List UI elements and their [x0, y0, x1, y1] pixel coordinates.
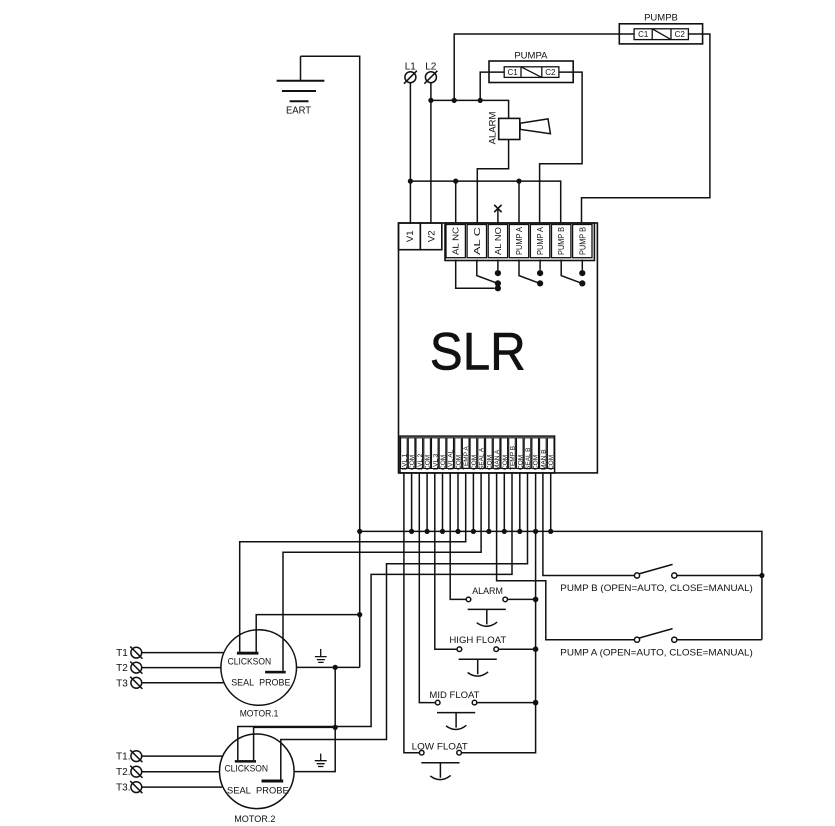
terminal COM 2 — [408, 438, 416, 470]
float switch LOW FLOAT — [412, 742, 468, 780]
svg-text:V2: V2 — [426, 230, 437, 242]
wire LVL 2 to mid float — [419, 473, 435, 703]
svg-text:MOTOR.2: MOTOR.2 — [234, 814, 275, 825]
terminal L2 — [424, 61, 437, 83]
svg-text:COM: COM — [440, 455, 447, 470]
terminal PUMP A 2 — [530, 225, 549, 258]
unused AL NO stub with X — [494, 205, 501, 223]
svg-text:MOTOR.1: MOTOR.1 — [240, 708, 279, 719]
terminal COM 16 — [517, 438, 525, 470]
svg-text:PUMP B: PUMP B — [556, 227, 566, 255]
terminal COM 6 — [439, 438, 447, 470]
ground symbol motor2 — [315, 754, 327, 767]
wire SEAL A to motor1 seal probe — [283, 473, 481, 671]
terminal PUMP A 1 — [509, 225, 528, 258]
terminal MAN A — [493, 438, 501, 470]
svg-text:CLICKSON: CLICKSON — [225, 764, 269, 774]
wire to PUMPB coil C1 — [454, 34, 634, 100]
svg-text:HIGH FLOAT: HIGH FLOAT — [449, 635, 506, 646]
terminal LVL 2 — [416, 438, 424, 470]
terminal COM 12 — [486, 438, 494, 470]
svg-text:AL NC: AL NC — [451, 227, 461, 255]
terminal T3 — [116, 677, 223, 690]
COM stub wires — [412, 473, 551, 531]
wire L1 to V1 — [409, 83, 411, 223]
wire L2 feed to alarm — [431, 100, 509, 118]
float switch MID FLOAT — [429, 690, 535, 730]
wire L2 to V2 — [430, 83, 432, 223]
motor M2 — [219, 734, 294, 825]
earth electrode EART — [277, 56, 325, 116]
terminal SEAL B — [524, 438, 532, 470]
terminal LVL AL — [447, 438, 455, 470]
junction ground chain dots — [333, 665, 338, 670]
terminal COM 20 — [547, 438, 555, 470]
svg-text:COM: COM — [409, 455, 416, 470]
svg-text:MAN B: MAN B — [540, 449, 547, 470]
ground symbol motor1 — [315, 649, 327, 663]
terminal SEAL A — [478, 438, 486, 470]
terminal COM 14 — [501, 438, 509, 470]
svg-text:LVL 2: LVL 2 — [417, 453, 424, 470]
svg-text:C1: C1 — [507, 68, 518, 77]
svg-text:AL C: AL C — [472, 227, 482, 255]
terminal AL NC — [446, 225, 465, 258]
wire SEAL B to motor2 seal probe — [281, 473, 528, 780]
terminal T3. — [116, 781, 222, 794]
terminal TEMP A — [462, 438, 470, 470]
float switch ALARM — [466, 586, 535, 626]
manual switch PUMP B — [560, 564, 762, 594]
relay terminal block outer — [445, 223, 594, 261]
svg-text:T3: T3 — [116, 678, 128, 689]
svg-text:COM: COM — [425, 455, 432, 470]
svg-text:PUMP B (OPEN=AUTO, CLOSE=MANUA: PUMP B (OPEN=AUTO, CLOSE=MANUAL) — [560, 583, 753, 594]
terminal COM 8 — [455, 438, 463, 470]
rail junction dots — [533, 597, 539, 706]
svg-text:T3.: T3. — [116, 783, 130, 794]
ground chain wire to motor2 — [294, 667, 335, 771]
wire PUMPA C2 to PUMP A 2 — [540, 72, 583, 223]
svg-text:L1: L1 — [405, 61, 417, 72]
wire alarm to AL C — [477, 140, 508, 224]
terminal PUMP B 2 — [573, 225, 592, 258]
wire EART to ground rail — [301, 56, 360, 667]
junction clickson to earth rail — [357, 612, 362, 617]
svg-text:PUMPA: PUMPA — [514, 51, 548, 62]
svg-text:ALARM: ALARM — [472, 586, 503, 597]
svg-text:PUMP B: PUMP B — [577, 227, 587, 255]
wire to PUMPA coil C1 — [480, 72, 504, 100]
svg-text:SEAL PROBE: SEAL PROBE — [231, 678, 290, 688]
terminal T2. — [116, 766, 219, 779]
svg-text:SEAL B: SEAL B — [525, 447, 532, 470]
svg-text:LVL AL: LVL AL — [448, 449, 455, 470]
svg-text:TEMP A: TEMP A — [463, 446, 470, 470]
svg-text:COM: COM — [471, 455, 478, 470]
terminal TEMP B — [509, 438, 517, 470]
terminal AL C — [467, 225, 486, 258]
svg-text:COM: COM — [486, 455, 493, 470]
wire LVL 1 to low float — [404, 473, 420, 753]
contactor coil PUMPA — [489, 51, 573, 83]
svg-text:C2: C2 — [545, 68, 556, 77]
svg-text:T1: T1 — [116, 648, 128, 659]
wire motor1 clickson to earth rail — [256, 615, 360, 652]
terminal L1 — [404, 61, 417, 83]
COM bus wire — [360, 531, 762, 639]
svg-text:PUMPB: PUMPB — [644, 13, 678, 24]
float switch HIGH FLOAT — [449, 635, 535, 676]
svg-text:LVL 3: LVL 3 — [432, 453, 439, 470]
alarm horn — [488, 112, 551, 145]
float common rail — [461, 473, 535, 753]
manual switch PUMP A — [560, 629, 762, 659]
terminal T2 — [116, 662, 221, 675]
svg-text:CLICKSON: CLICKSON — [228, 656, 272, 666]
svg-text:SEAL A: SEAL A — [479, 447, 486, 470]
terminal LVL 3 — [432, 438, 440, 470]
terminal PUMP B 1 — [552, 225, 571, 258]
svg-text:COM: COM — [502, 455, 509, 470]
svg-text:T2: T2 — [116, 663, 128, 674]
wire TEMP B to motor2 clickson — [238, 473, 512, 760]
svg-text:TEMP B: TEMP B — [510, 446, 517, 470]
terminal T1 — [116, 647, 223, 660]
svg-text:L2: L2 — [425, 61, 437, 72]
wire LVL 3 to high float — [435, 473, 457, 649]
svg-text:SLR: SLR — [430, 322, 526, 381]
terminal T1. — [116, 750, 222, 763]
COM bus junction dots — [357, 529, 553, 534]
svg-text:MAN A: MAN A — [494, 449, 501, 470]
svg-text:COM: COM — [456, 455, 463, 470]
wire motor1 body to earth rail — [296, 666, 359, 668]
wire AL NC stub — [455, 181, 457, 223]
svg-text:LVL 1: LVL 1 — [401, 453, 408, 470]
terminal COM 18 — [532, 438, 540, 470]
svg-text:AL NO: AL NO — [493, 227, 503, 255]
svg-text:T1.: T1. — [116, 752, 130, 763]
svg-text:PUMP A: PUMP A — [514, 227, 524, 255]
svg-text:MID FLOAT: MID FLOAT — [429, 690, 479, 701]
svg-text:V1: V1 — [405, 230, 416, 242]
wire PUMPB C2 to PUMP B 2 — [582, 34, 710, 223]
svg-text:COM: COM — [533, 455, 540, 470]
svg-text:T2.: T2. — [116, 767, 130, 778]
svg-text:COM: COM — [548, 455, 555, 470]
terminal MAN B — [540, 438, 548, 470]
svg-text:PUMP A: PUMP A — [535, 227, 545, 255]
junction bus rail to pump B switch — [759, 573, 764, 578]
wire L1 feed to PUMP B 1 — [410, 181, 560, 223]
SLR controller box U1 — [399, 223, 598, 473]
svg-text:C1: C1 — [638, 30, 649, 39]
svg-text:COM: COM — [517, 455, 524, 470]
wire MAN B to pump B switch — [543, 473, 635, 576]
wire MAN A to pump A switch — [497, 473, 635, 640]
junction dots top — [408, 179, 413, 184]
motor M1 — [221, 630, 297, 720]
svg-text:PUMP A (OPEN=AUTO, CLOSE=MANUA: PUMP A (OPEN=AUTO, CLOSE=MANUAL) — [560, 648, 753, 659]
terminal LVL 1 — [401, 438, 409, 470]
wire motor2 clickson to ground chain — [254, 727, 336, 760]
terminal AL NO — [488, 225, 507, 258]
terminal V1 — [399, 223, 421, 250]
wire LVL AL to alarm float — [450, 473, 466, 599]
wire PUMP A 1 stub — [518, 181, 520, 223]
svg-text:EART: EART — [286, 105, 312, 117]
contactor coil PUMPB — [619, 13, 702, 44]
wire TEMP A to motor1 clickson — [240, 473, 466, 652]
terminal COM 4 — [424, 438, 432, 470]
svg-text:ALARM: ALARM — [488, 112, 499, 145]
relay contact AL (NC/C/NO) — [456, 260, 501, 292]
bottom terminal strip outer — [400, 436, 555, 473]
svg-text:SEAL PROBE: SEAL PROBE — [227, 786, 289, 796]
terminal COM 10 — [470, 438, 478, 470]
relay contact PUMP B — [561, 260, 585, 287]
relay contact PUMP A — [519, 260, 543, 287]
svg-text:C2: C2 — [675, 30, 686, 39]
terminal V2 — [420, 223, 442, 250]
